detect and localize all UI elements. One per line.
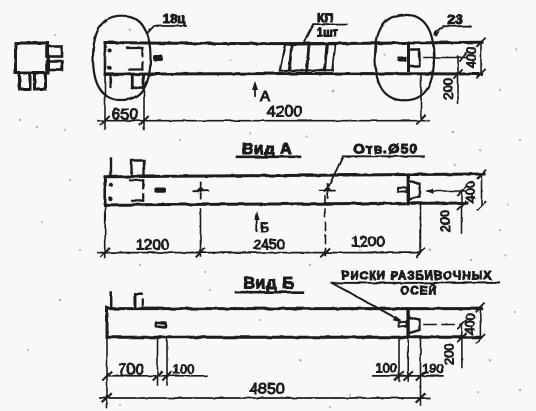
- label 18ц leader: [147, 26, 186, 34]
- embedded bracket (dashed) left end: [128, 48, 143, 70]
- dim 400 line right: [481, 174, 483, 206]
- console centre line dashed: [424, 324, 462, 326]
- console hanging below left end: [132, 75, 143, 89]
- small mark below beam left: [109, 76, 111, 87]
- svg-text:1200: 1200: [351, 234, 384, 251]
- axis mark tab outline: [398, 188, 407, 192]
- extension at 4200 right: [420, 76, 422, 121]
- title underline: [237, 156, 300, 159]
- hole 1 symbol: [193, 183, 208, 199]
- svg-text:РИСКИ РАЗБИВОЧНЫХ: РИСКИ РАЗБИВОЧНЫХ: [342, 271, 493, 283]
- embedded bracket dashed: [130, 180, 143, 201]
- extension hole2 (dashed): [324, 196, 326, 255]
- svg-text:2450: 2450: [253, 236, 284, 252]
- label Otv O50 leader: [329, 156, 424, 186]
- ticks on 650/4200: [101, 116, 425, 125]
- stub 2 (angle): [135, 294, 142, 308]
- detail ellipse right end: [375, 15, 434, 100]
- dim row1 right segment: [373, 375, 443, 377]
- ticks 4850: [103, 394, 425, 402]
- extensions right: [399, 338, 408, 381]
- left end extension line down: [104, 74, 106, 129]
- console centre line: [424, 57, 466, 59]
- dim row1 left segment: [107, 375, 207, 377]
- beam left end: [104, 42, 107, 74]
- svg-text:23: 23: [447, 11, 463, 27]
- stub 1: [110, 293, 113, 308]
- console right (trapezoid): [409, 182, 420, 200]
- anchor dots: [108, 182, 112, 186]
- left extension down: [106, 337, 108, 408]
- label 23 leader with arrow: [435, 26, 471, 33]
- dim 650 extension right: [143, 90, 145, 130]
- slot extensions left: [158, 337, 168, 385]
- console centre line with arrow: [428, 190, 466, 192]
- title underline: [236, 291, 302, 294]
- embedded slot plate: [155, 321, 167, 328]
- extension right end: [420, 205, 422, 253]
- svg-text:Вид Б: Вид Б: [243, 275, 294, 293]
- svg-text:1шт: 1шт: [317, 28, 339, 40]
- view arrow B: [256, 216, 258, 231]
- dim 400 line (right, vertical): [480, 42, 482, 73]
- anchor dots left end: [108, 48, 112, 52]
- dim 200 line right: [461, 325, 463, 368]
- svg-text:190: 190: [422, 361, 444, 376]
- dim line 650/4200: [98, 120, 429, 122]
- bottom edge extension right: [420, 202, 467, 204]
- beam left end: [106, 308, 109, 338]
- svg-text:ОСЕЙ: ОСЕЙ: [400, 285, 437, 298]
- dim 200 line (right, vertical): [457, 57, 459, 104]
- left extension down: [104, 205, 106, 258]
- console right (trapezoid): [410, 318, 420, 334]
- svg-text:КП: КП: [317, 11, 333, 25]
- embedded tab bottom: [47, 61, 63, 70]
- KP plate divider 2: [307, 44, 309, 70]
- svg-text:Б: Б: [260, 219, 269, 235]
- hole 2 symbol: [320, 184, 335, 198]
- leg right: [35, 73, 46, 89]
- svg-text:700: 700: [118, 362, 144, 379]
- extension console tip down: [420, 338, 422, 405]
- embedded slot plate: [154, 188, 166, 193]
- axis mark tab outline: [399, 322, 407, 326]
- axis mark tab (filled): [398, 57, 407, 62]
- beam top edge: [107, 307, 482, 310]
- dim 4850 line: [100, 397, 429, 399]
- svg-text:400: 400: [463, 313, 478, 335]
- beam top edge: [105, 174, 484, 177]
- svg-text:650: 650: [112, 107, 139, 124]
- svg-text:Отв.Ø50: Отв.Ø50: [353, 141, 418, 157]
- ticks on chain: [101, 249, 424, 257]
- embedded slot plate: [153, 55, 163, 61]
- dim 400 line right: [479, 308, 481, 339]
- beam top edge: [105, 42, 482, 43]
- riski leader arrow: [332, 283, 400, 320]
- svg-text:100: 100: [173, 362, 195, 377]
- extension hole1: [200, 209, 202, 256]
- stub small left: [110, 159, 112, 177]
- svg-text:400: 400: [464, 46, 479, 68]
- ticks row1: [103, 372, 425, 380]
- KP plate (marking plate): [280, 44, 336, 71]
- tick on centre line: [460, 54, 466, 62]
- dim 200 line right: [461, 191, 463, 233]
- stub 3: [142, 300, 144, 308]
- embedded tab top: [47, 47, 63, 57]
- svg-text:4850: 4850: [249, 381, 285, 398]
- svg-text:4200: 4200: [267, 104, 303, 121]
- svg-text:А: А: [260, 88, 270, 105]
- section view (small end view at far left): [16, 43, 63, 89]
- view arrow A: [254, 84, 256, 96]
- beam right end: [407, 43, 410, 71]
- detail ellipse left end: [93, 16, 151, 100]
- console right end (top view): [410, 50, 420, 66]
- leg left: [20, 73, 31, 89]
- svg-text:200: 200: [438, 210, 453, 232]
- beam bottom edge: [107, 336, 480, 339]
- beam right end: [406, 309, 409, 336]
- svg-text:200: 200: [440, 78, 455, 100]
- beam left end: [104, 177, 107, 205]
- beam bottom edge: [105, 203, 467, 205]
- svg-text:100: 100: [375, 361, 397, 376]
- svg-text:400: 400: [463, 181, 478, 203]
- dim chain line: [98, 252, 421, 254]
- stub console (rect): [132, 161, 145, 177]
- section body square: [16, 43, 49, 73]
- KP plate divider 1: [289, 45, 291, 70]
- KP plate divider 3: [325, 44, 327, 70]
- svg-text:1200: 1200: [136, 237, 169, 254]
- beam right end: [407, 175, 410, 204]
- label KP 1sht leader: [304, 25, 348, 44]
- label underline: [332, 282, 500, 284]
- svg-text:Вид А: Вид А: [242, 141, 292, 158]
- svg-text:18ц: 18ц: [163, 11, 185, 26]
- beam bottom edge: [105, 72, 481, 76]
- svg-text:200: 200: [442, 343, 457, 365]
